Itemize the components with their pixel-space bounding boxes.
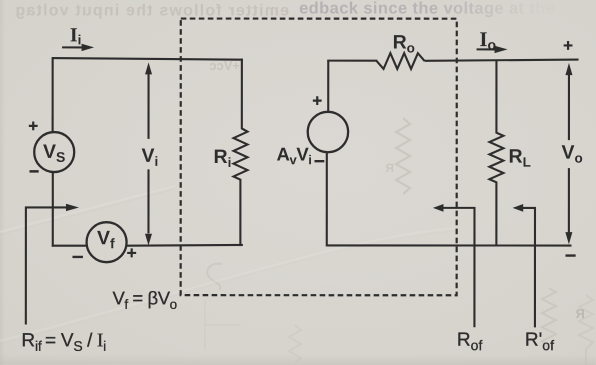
ghost resistor zigzag middle [385,118,410,194]
ghost zigzag small near Rif [289,325,301,363]
svg-text:R: R [385,161,394,175]
current arrow Io [477,46,508,53]
wire top left horizontal [52,58,243,60]
wire AvVi top vertical [327,60,329,112]
wire Vs top vertical [52,58,54,132]
pointer line Rif [26,207,66,324]
polarity minus of AvVi [315,160,325,162]
ghost bleed-through text top right [299,0,555,18]
pointer line Rof [441,208,475,327]
svg-text:emitter follows the input volt: emitter follows the input voltag [14,2,289,19]
resistor RL [489,60,503,247]
polarity plus of AvVi [313,96,322,105]
resistor Ro [377,53,425,69]
ghost bleed-through text top left (mirrored) [14,2,289,19]
polarity plus of Vs [29,121,38,130]
wire bottom right horizontal [327,244,572,246]
polarity minus of Vs [30,170,39,172]
dashed feedback network box [181,19,457,296]
polarity plus of Vf [127,248,136,257]
ghost +Vcc bleed-through [209,58,240,73]
voltage arrow Vi (double headed) [145,62,152,245]
polarity minus output bottom [565,254,575,256]
svg-text:edback since the voltage at th: edback since the voltage at the [299,0,555,18]
polarity minus of Vf [72,256,82,258]
current arrow Ii [62,44,94,51]
polarity plus output top [564,41,573,50]
wire top right (AvVi to Ro) [327,60,377,62]
wire top right (Ro to output) [425,59,579,60]
svg-text:R: R [575,306,585,321]
controlled source AvVi [308,112,348,152]
wire Vs bottom vertical [52,172,54,246]
ghost resistor zigzag far right bottom [579,295,593,365]
arrowhead R'of [513,204,524,212]
voltage arrow Vo (double headed) [565,63,572,244]
crease A [0,186,175,232]
wire bottom left (Vs to Vf) [52,245,87,247]
crease B [0,228,455,341]
resistor Ri [233,59,247,247]
ghost resistor zigzag right lower [542,288,556,348]
wire bottom left (Vf to Ri branch) [126,244,243,247]
voltage source Vf [87,222,127,262]
ghost pencil mark [207,264,222,290]
ghost box lines lower left [205,300,240,350]
svg-text:Vf= βVo: Vf= βVo [112,287,176,312]
arrowhead Rif [66,204,79,211]
wire AvVi bottom vertical [326,152,328,246]
pointer line R'of [520,208,535,327]
arrowhead Rof [433,204,444,212]
voltage source Vs [34,132,74,172]
